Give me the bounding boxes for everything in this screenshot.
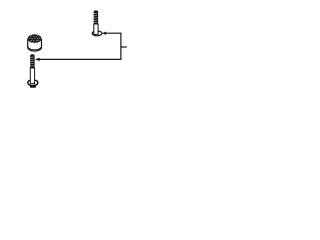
- screw A (top right): [92, 10, 102, 35]
- node arrow to screw A: [102, 32, 106, 35]
- head base: [29, 84, 37, 88]
- threaded shaft: [94, 10, 98, 24]
- knurled top face: [28, 34, 42, 43]
- smooth shank: [94, 24, 98, 34]
- head flange: [28, 80, 38, 86]
- threaded shaft: [30, 54, 34, 68]
- wire tick: [121, 46, 127, 48]
- node arrow to screw B: [35, 58, 40, 61]
- knurled nut: [28, 34, 42, 51]
- screw B (bottom left): [28, 54, 38, 87]
- smooth shank: [30, 68, 34, 84]
- wire leader bracket: [39, 33, 121, 59]
- bottom rim line: [28, 47, 41, 50]
- body outline: [28, 39, 42, 51]
- head flange: [92, 31, 102, 36]
